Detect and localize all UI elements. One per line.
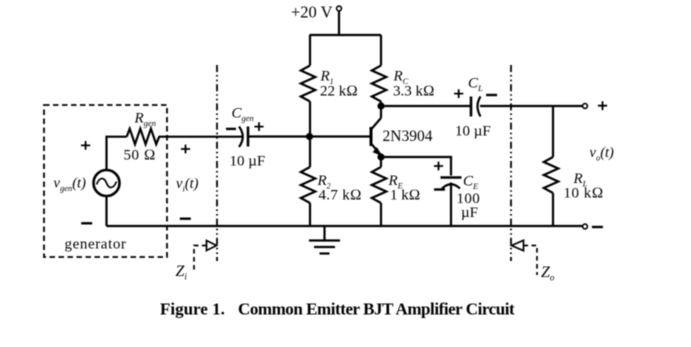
svg-text:generator: generator bbox=[65, 237, 127, 253]
resistor R_gen (50 ohm, horizontal) bbox=[127, 129, 160, 145]
wire source top to R_gen bbox=[107, 137, 127, 170]
svg-text:10 kΩ: 10 kΩ bbox=[564, 186, 604, 202]
wire C_gen to base node to transistor bbox=[248, 135, 371, 137]
label - (C_gen) bbox=[226, 128, 236, 130]
label + (output) bbox=[598, 101, 607, 110]
resistor Rc 3.3k bbox=[372, 35, 387, 106]
label - (output) bbox=[592, 226, 603, 228]
output terminal bottom bbox=[583, 224, 588, 229]
source V_gen sine generator bbox=[94, 170, 120, 196]
bottom rail wire bbox=[107, 225, 583, 227]
label + (C_gen) bbox=[254, 122, 263, 131]
svg-text:10 µF: 10 µF bbox=[455, 124, 491, 140]
transistor Q1 2N3904 bbox=[371, 106, 381, 157]
wire R_gen to C_gen bbox=[159, 136, 243, 138]
label + (v_i) bbox=[181, 145, 190, 154]
Z_i boundary dash-dot line bbox=[216, 65, 218, 261]
label + (C_L) bbox=[454, 89, 463, 98]
node A (base divider junction) bbox=[306, 133, 313, 140]
svg-text:Cgen: Cgen bbox=[232, 106, 254, 124]
resistor R_L 10k bbox=[544, 106, 559, 226]
resistor R2 4.7k bbox=[301, 137, 316, 227]
capacitor C_L 10uF bbox=[471, 97, 481, 117]
wire C_L to output bbox=[480, 105, 582, 107]
svg-text:4.7 kΩ: 4.7 kΩ bbox=[319, 188, 362, 204]
label - (C_L) bbox=[486, 94, 497, 96]
generator dashed box bbox=[44, 105, 167, 257]
svg-text:CE: CE bbox=[463, 174, 479, 192]
svg-text:vo(t): vo(t) bbox=[590, 145, 615, 163]
capacitor C_E 100uF bbox=[441, 178, 462, 227]
wire source bottom to bottom rail bbox=[105, 196, 107, 226]
+20V terminal bbox=[337, 6, 342, 35]
Z_o boundary dash-dot line bbox=[510, 65, 512, 261]
svg-text:Zi: Zi bbox=[176, 263, 188, 282]
wire emitter to C_E bbox=[381, 157, 451, 176]
svg-text:10 µF: 10 µF bbox=[230, 154, 266, 170]
svg-text:vgen(t): vgen(t) bbox=[54, 176, 87, 194]
output terminal top bbox=[583, 104, 588, 109]
svg-text:vi(t): vi(t) bbox=[176, 176, 199, 194]
svg-text:CL: CL bbox=[468, 76, 483, 94]
wire collector line to C_L bbox=[381, 105, 470, 107]
node collector junction bbox=[377, 102, 384, 109]
label - (v_i) bbox=[180, 217, 191, 219]
label + (generator) bbox=[81, 141, 90, 150]
node emitter junction bbox=[377, 153, 384, 160]
Z_i arrow bbox=[194, 241, 217, 274]
resistor RE 1k bbox=[372, 157, 387, 226]
resistor R1 22k bbox=[301, 35, 316, 137]
ground bbox=[309, 226, 340, 254]
svg-text:1 kΩ: 1 kΩ bbox=[390, 188, 420, 204]
svg-text:Common Emitter BJT Amplifier C: Common Emitter BJT Amplifier Circuit bbox=[238, 300, 515, 319]
svg-text:Rgen: Rgen bbox=[134, 111, 156, 129]
svg-text:22 kΩ: 22 kΩ bbox=[320, 84, 358, 100]
svg-text:µF: µF bbox=[461, 205, 478, 221]
wire top rail bbox=[310, 34, 382, 36]
svg-text:+20 V: +20 V bbox=[291, 3, 333, 22]
Z_o arrow bbox=[512, 240, 538, 275]
svg-text:2N3904: 2N3904 bbox=[383, 128, 433, 145]
label + (C_E) bbox=[434, 162, 443, 171]
svg-text:Zo: Zo bbox=[541, 264, 555, 283]
label - (C_E) bbox=[434, 188, 445, 190]
svg-text:Figure 1.: Figure 1. bbox=[160, 300, 225, 319]
svg-text:3.3 kΩ: 3.3 kΩ bbox=[393, 84, 435, 100]
svg-text:50 Ω: 50 Ω bbox=[124, 148, 156, 164]
capacitor C_gen (10 uF) bbox=[239, 127, 248, 148]
label - (generator) bbox=[81, 222, 92, 224]
